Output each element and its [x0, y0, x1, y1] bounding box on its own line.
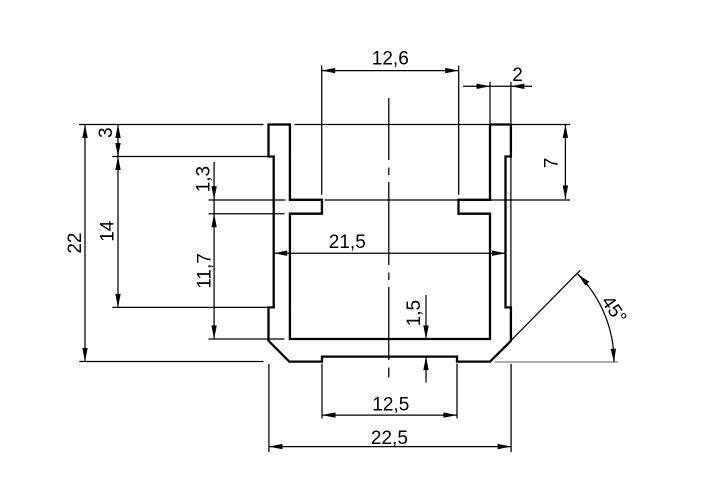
dimension 21,5	[274, 232, 506, 256]
dimension 22,5	[269, 428, 511, 449]
extension line x=458.7 for 12,6	[458, 66, 460, 195]
extension line y=213.7	[209, 213, 285, 215]
svg-text:22: 22	[65, 233, 86, 254]
svg-text:21,5: 21,5	[329, 232, 366, 253]
extension line y=200	[209, 199, 571, 201]
dimension 12,5	[322, 394, 457, 417]
vertical centerline	[388, 98, 390, 378]
extension line y=156.5	[112, 156, 268, 158]
extension line y=307.4	[112, 306, 268, 308]
dimension 3	[96, 125, 121, 157]
svg-text:11,7: 11,7	[195, 253, 216, 289]
extension line bottom y=361.5	[79, 361, 263, 363]
dimension 1,3	[193, 162, 216, 339]
dimension 7	[542, 125, 569, 200]
extension line x=322 for 12,5	[321, 364, 323, 419]
dimension 11,7	[195, 253, 217, 339]
profile right outer surface line	[510, 157, 512, 308]
svg-text:3: 3	[96, 127, 117, 138]
svg-text:1,3: 1,3	[193, 166, 214, 192]
dimension 14	[98, 157, 121, 308]
gray reference line for 45deg	[495, 361, 618, 363]
svg-text:12,5: 12,5	[372, 394, 409, 415]
dimension 22	[65, 125, 88, 362]
profile cross-section outline	[269, 125, 511, 362]
dimension 12,6	[322, 48, 459, 73]
dimension 45deg chamfer extension line	[490, 270, 580, 361]
extension line x=510.9 for 2	[510, 82, 512, 124]
extension line y=339	[209, 338, 285, 340]
extension line x=457 for 12,5	[456, 364, 458, 419]
svg-text:1,5: 1,5	[404, 300, 425, 326]
svg-text:2: 2	[512, 65, 523, 86]
dimension 1,5	[404, 295, 429, 383]
extension line top y=124.5	[79, 124, 570, 126]
svg-text:7: 7	[542, 158, 563, 169]
svg-text:22,5: 22,5	[371, 428, 408, 449]
extension line x=321.7 for 12,6	[321, 66, 323, 195]
svg-text:12,6: 12,6	[372, 48, 409, 69]
svg-text:14: 14	[98, 220, 119, 242]
extension line x=268.9 for 22,5	[268, 364, 270, 452]
extension line x=511.1 for 22,5	[510, 364, 512, 452]
dimension 45deg arc	[578, 274, 631, 362]
extension line x=490 for 2	[489, 82, 491, 124]
dimension 2	[463, 65, 532, 89]
